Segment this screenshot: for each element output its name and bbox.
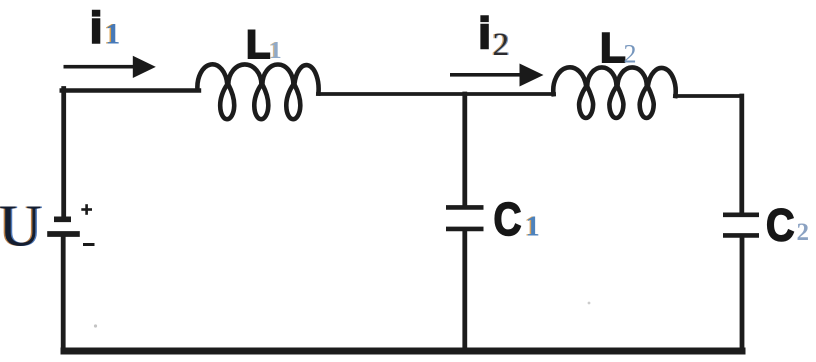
battery U bottom plate — [47, 231, 80, 237]
capacitor C2 bottom plate — [723, 233, 759, 238]
wire right vertical lower — [740, 237, 745, 353]
current arrow i1 — [64, 56, 156, 78]
label L1 subscript 1 — [268, 38, 281, 64]
bottom rail wire — [61, 348, 746, 355]
current arrow i2 — [450, 64, 544, 87]
capacitor C1 top plate — [446, 205, 484, 210]
speck mark middle — [588, 302, 591, 305]
svg-text:L: L — [600, 24, 626, 71]
svg-text:C: C — [494, 193, 522, 245]
wire top-middle horizontal — [318, 92, 554, 96]
svg-text:i: i — [479, 9, 491, 58]
label U source — [0, 193, 43, 259]
inductor L1 — [197, 64, 318, 119]
wire top-left horizontal — [62, 88, 199, 92]
label C1 subscript 1 — [524, 211, 539, 242]
inductor L2 — [553, 67, 675, 118]
wire top-right horizontal — [675, 94, 742, 98]
svg-text:2: 2 — [624, 39, 637, 68]
svg-text:1: 1 — [105, 18, 120, 51]
svg-text:i: i — [90, 4, 102, 53]
svg-text:U: U — [0, 193, 42, 259]
wire left vertical lower — [61, 236, 66, 352]
capacitor C1 bottom plate — [446, 227, 484, 232]
battery minus sign — [83, 243, 95, 246]
speck mark left — [94, 324, 97, 327]
wire left vertical upper — [61, 89, 66, 219]
svg-text:C: C — [766, 200, 795, 251]
svg-text:L: L — [246, 23, 270, 67]
svg-text:2: 2 — [493, 27, 510, 63]
svg-text:1: 1 — [270, 38, 282, 64]
label i1 subscript 1 — [104, 18, 121, 51]
node junction wire C1 upper — [462, 94, 467, 207]
capacitor C2 top plate — [723, 213, 759, 218]
battery plus sign — [81, 204, 92, 215]
wire right vertical upper — [739, 96, 744, 214]
battery U top plate — [54, 217, 71, 223]
label i2 subscript 2 — [491, 27, 510, 63]
svg-text:1: 1 — [526, 211, 540, 242]
svg-text:2: 2 — [797, 219, 810, 246]
wire C1 lower — [462, 230, 467, 352]
